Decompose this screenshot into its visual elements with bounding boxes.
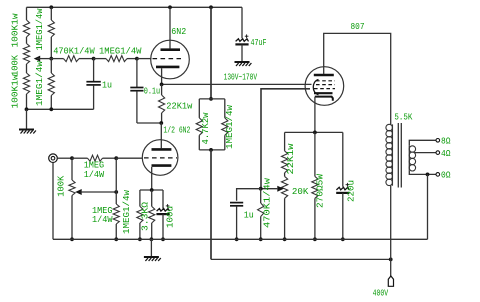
wire bracket [199, 98, 225, 100]
capacitor 47uF [235, 34, 266, 48]
resistor 22K1W cathode divider [282, 143, 296, 175]
wire [57, 157, 72, 159]
wire B+ drop line [210, 7, 212, 99]
svg-text:270Ω5W: 270Ω5W [316, 173, 326, 208]
wire V3 cathode lead [314, 97, 316, 133]
potentiometer 100K (divider) [11, 44, 41, 77]
wire [50, 59, 52, 73]
wire [103, 157, 117, 159]
tube V3 grid g2 [316, 80, 335, 82]
svg-text:400V: 400V [373, 289, 389, 299]
wire [241, 45, 243, 62]
wire [224, 99, 226, 118]
wire [198, 99, 200, 118]
wire [139, 223, 141, 239]
wire [162, 214, 164, 239]
wire [161, 84, 163, 95]
wire [127, 58, 137, 60]
tube V1 plate [161, 48, 181, 51]
wire V2 plate lead [160, 123, 162, 148]
resistor 470K1/4W [53, 46, 95, 61]
node top rail / dropper [209, 5, 213, 9]
wire [314, 198, 316, 239]
svg-text:47uF: 47uF [251, 38, 267, 48]
wire [139, 190, 141, 206]
svg-text:4Ω: 4Ω [441, 149, 451, 159]
svg-text:5.5K: 5.5K [394, 113, 413, 123]
resistor 470K1/4W bias [258, 177, 273, 228]
wire [136, 59, 138, 87]
wire [71, 196, 73, 240]
wire B+ feed down [210, 150, 212, 260]
wire left divider chain top [26, 7, 28, 20]
svg-text:130V~170V: 130V~170V [224, 73, 258, 83]
wire pot tap [81, 191, 117, 193]
wire [342, 193, 344, 239]
wire ground bus [53, 238, 428, 240]
wire [198, 135, 200, 150]
wire [284, 132, 286, 151]
node [313, 237, 317, 241]
node [161, 237, 165, 241]
resistor 4.7K2W [196, 112, 211, 145]
wire divider ground bus [27, 108, 94, 110]
node [209, 97, 213, 101]
wire [26, 37, 28, 44]
svg-text:100K1w: 100K1w [11, 13, 21, 48]
resistor 270R5W [312, 173, 326, 208]
wire [93, 85, 95, 109]
tube V3 plate [314, 74, 334, 77]
svg-text:1/4W: 1/4W [92, 215, 113, 225]
resistor 1MEG1/4W dropper [222, 104, 235, 149]
wire [115, 224, 117, 239]
wire [390, 259, 392, 276]
svg-text:220u: 220u [347, 180, 357, 202]
tube V1 6N2 envelope [151, 40, 190, 79]
wire g1 tap [261, 188, 278, 190]
wire V3 g1 lead [261, 89, 310, 189]
node [313, 131, 317, 135]
tube V2 grid [144, 157, 177, 159]
resistor 3.3K cathode [140, 201, 154, 231]
node [138, 237, 142, 241]
wire [162, 190, 164, 209]
svg-text:8Ω: 8Ω [441, 137, 451, 147]
resistor 1MEG1/4W input series [84, 155, 105, 180]
node [114, 237, 118, 241]
svg-text:1MEG1/4w: 1MEG1/4w [122, 189, 132, 234]
wire [284, 173, 286, 177]
wire [71, 158, 73, 180]
wire input jack ground drop [52, 163, 54, 240]
wire B+ feed bottom [211, 258, 391, 260]
node cathode junction [150, 188, 154, 192]
capacitor 100u [156, 204, 175, 228]
ground [235, 62, 252, 66]
wire primary bottom lead [390, 186, 392, 260]
resistor 100K1W upper [11, 13, 30, 48]
svg-text:1MEG1/4w: 1MEG1/4w [35, 8, 45, 51]
svg-text:1u: 1u [244, 210, 254, 220]
svg-text:20K: 20K [292, 187, 309, 197]
tube V3 beam plate arc [313, 80, 318, 95]
tube V3 cathode [314, 92, 333, 94]
tube V1 grid [153, 58, 182, 60]
wire pot tap to bias node [37, 58, 51, 60]
node [259, 237, 263, 241]
capacitor 1u bias [230, 203, 254, 221]
svg-text:6N2: 6N2 [171, 27, 186, 37]
node V1 cathode junction [160, 83, 164, 87]
tube V3 807 envelope [305, 67, 344, 106]
node [25, 107, 29, 111]
tube V3 grid g1 [316, 84, 335, 86]
svg-text:1/2 6N2: 1/2 6N2 [163, 125, 190, 135]
wire V2 cathode lead [151, 167, 153, 190]
wire [161, 113, 163, 123]
label 130V~170V [224, 73, 258, 83]
wire [314, 132, 316, 176]
wire [136, 91, 138, 123]
node [70, 237, 74, 241]
svg-text:0.1u: 0.1u [144, 87, 161, 97]
wire [50, 7, 52, 20]
wire 0R return [427, 174, 429, 239]
wire [94, 58, 106, 60]
svg-text:4.7K2w: 4.7K2w [201, 112, 211, 145]
transformer T1 secondary [409, 146, 415, 171]
terminal 8R [436, 137, 451, 147]
node top rail / 1MEG bias tap [49, 5, 53, 9]
svg-text:100K: 100K [57, 175, 67, 197]
node [235, 237, 239, 241]
node pot top [70, 156, 74, 160]
transformer core [398, 123, 401, 188]
wire [260, 217, 262, 240]
wire V1 grid lead [137, 58, 152, 60]
svg-text:470K1/4w: 470K1/4w [263, 177, 273, 228]
svg-text:1u: 1u [102, 81, 112, 91]
wire 130V-170V rail [162, 83, 312, 85]
wire [236, 206, 238, 239]
svg-text:100K: 100K [11, 54, 21, 76]
tube V1 cathode [156, 66, 179, 69]
wire V1 plate lead [169, 7, 171, 48]
wire cathode rail [285, 131, 343, 133]
connector input jack [49, 154, 58, 163]
resistor 22K1W [159, 95, 193, 113]
label 6N2 [171, 27, 186, 37]
capacitor 1u [86, 81, 112, 91]
svg-text:3.3KΩ: 3.3KΩ [140, 201, 150, 231]
ground center [144, 257, 161, 261]
wire 0R tap [409, 171, 436, 175]
node [209, 148, 213, 152]
wire [50, 96, 52, 110]
wire [137, 122, 161, 124]
resistor 1MEG1/4W upper bias [35, 8, 54, 51]
svg-text:1/4W: 1/4W [84, 170, 105, 180]
wire [26, 109, 28, 129]
wire [115, 158, 117, 204]
wire 8R tap [409, 140, 436, 146]
node [341, 237, 345, 241]
node grid RC [92, 57, 96, 61]
wire [151, 223, 153, 239]
node [150, 237, 154, 241]
terminal 0R [436, 171, 451, 181]
resistor 1MEG1/4W grid series [99, 46, 142, 61]
wire bracket [199, 149, 225, 151]
svg-text:1MEG: 1MEG [84, 160, 105, 170]
svg-text:22K1w: 22K1w [286, 143, 296, 175]
resistor 100K1W lower [11, 73, 30, 109]
capacitor 0.1u [130, 87, 160, 97]
capacitor 220u [336, 180, 356, 202]
wire [241, 7, 243, 38]
svg-text:807: 807 [351, 22, 365, 32]
wire [51, 58, 63, 60]
wire center ground tap [150, 239, 152, 256]
resistor 1MEG1/4W grid leak [92, 204, 119, 225]
wire [151, 190, 153, 206]
svg-text:100u: 100u [165, 206, 175, 228]
resistor 1MEG1/4W cathode [122, 189, 143, 234]
wire [237, 189, 261, 201]
wire [26, 94, 28, 109]
wire [224, 135, 226, 150]
svg-text:470K1/4W: 470K1/4W [53, 46, 95, 56]
wire cathode bracket [140, 189, 163, 191]
node B+ 400V junction [389, 258, 393, 262]
wire V1 cathode lead [161, 68, 163, 84]
resistor 1MEG1/4W lower bias [35, 60, 54, 106]
node tap junction [114, 190, 118, 194]
node top rail / V1 plate [168, 5, 172, 9]
wire V3 plate lead [324, 33, 391, 124]
potentiometer 20K [277, 176, 309, 198]
label 1/2 6N2 [163, 125, 190, 135]
svg-text:1MEG1/4w: 1MEG1/4w [225, 104, 235, 149]
label 400V [373, 289, 389, 299]
wire [342, 132, 344, 186]
wire [72, 157, 88, 159]
node V1 grid [135, 57, 139, 61]
svg-text:1MEG1/4W: 1MEG1/4W [99, 46, 142, 56]
svg-text:100K1w: 100K1w [11, 74, 21, 109]
terminal 4R [436, 149, 451, 159]
svg-text:1MEG1/4w: 1MEG1/4w [35, 60, 45, 106]
wire [50, 37, 52, 59]
tube V2 cathode [152, 164, 172, 167]
node V2 plate junction [159, 121, 163, 125]
node V2 grid [114, 156, 118, 160]
svg-text:22K1w: 22K1w [166, 101, 193, 111]
tube V3 cathode base [315, 97, 333, 101]
wire [79, 58, 94, 60]
svg-text:0Ω: 0Ω [441, 171, 451, 181]
node 0R junction [426, 173, 430, 177]
wire [93, 59, 95, 82]
label 807 [351, 22, 365, 32]
wire B+ top rail [27, 6, 243, 8]
tube V2 plate [152, 148, 172, 151]
node [49, 107, 53, 111]
tube V3 grid g3 [314, 88, 335, 90]
wire 4R tap [415, 152, 437, 154]
wire V2 grid lead [116, 157, 142, 159]
wire [260, 189, 262, 203]
node g1 bias node [259, 187, 263, 191]
wire [284, 198, 286, 239]
connector 400V plug [388, 276, 393, 286]
node bias tap [49, 57, 53, 61]
tube V2 6N2 envelope [142, 140, 178, 176]
wire [26, 64, 28, 73]
potentiometer 100K volume [57, 175, 82, 197]
ground [19, 130, 36, 134]
transformer T1 primary 5.5K [386, 113, 413, 186]
node [283, 237, 287, 241]
